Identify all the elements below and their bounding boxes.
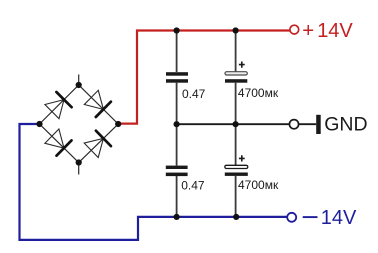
svg-text:GND: GND: [324, 113, 367, 135]
svg-text:0.47: 0.47: [181, 179, 205, 193]
svg-text:0.47: 0.47: [182, 87, 206, 101]
svg-text:4700мк: 4700мк: [238, 178, 279, 192]
svg-text:+: +: [302, 19, 314, 42]
svg-text:14V: 14V: [321, 207, 357, 229]
svg-text:14V: 14V: [317, 20, 353, 42]
svg-text:4700мк: 4700мк: [238, 86, 279, 100]
